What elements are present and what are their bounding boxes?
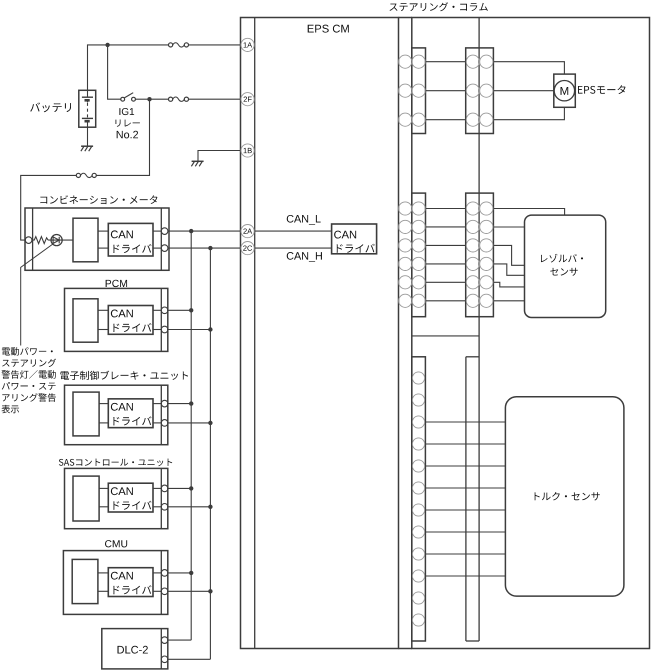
wire meter to pin 2C <box>168 247 241 249</box>
resistor warning lamp <box>32 237 48 244</box>
label meter CAN driver <box>111 230 133 238</box>
resolver row 6 terminals <box>399 294 412 307</box>
connector block motor left <box>412 48 426 134</box>
relay switch contact left <box>121 97 125 101</box>
torque terminal 6 <box>412 482 424 494</box>
wire fuse F2 to pin 2F <box>189 98 242 100</box>
pin 2C <box>241 242 254 255</box>
torque terminal 8 <box>412 526 424 538</box>
resolver row 4 terminals <box>399 257 412 270</box>
wire DLC-2 to CAN_L bus <box>168 639 191 641</box>
wire SAS control unit to CAN_L bus <box>168 487 191 489</box>
wire node A down to relay switch <box>108 45 121 99</box>
node SAS control unit CAN_L junction dot <box>189 486 193 490</box>
wire meter CAN driver to terminal H <box>153 247 161 249</box>
SAS control unit internal block <box>73 476 99 521</box>
label brake unit CAN driver <box>111 403 133 411</box>
wire fuse F3 to meter terminal <box>21 175 77 240</box>
wire SAS control unit CAN driver to terminal L <box>153 487 161 489</box>
resolver row 1 terminals <box>399 202 412 215</box>
pin 2F <box>241 93 254 106</box>
wire pin 2A to EPS CAN driver <box>255 230 332 232</box>
node brake unit CAN_L junction dot <box>189 401 193 405</box>
wire brake unit CAN driver to terminal H <box>153 422 161 424</box>
motor row 3 terminals <box>399 113 412 126</box>
wire SAS control unit block to CAN driver L <box>99 487 108 489</box>
CAN_L bus wire <box>190 231 192 640</box>
relay switch blade <box>124 93 133 98</box>
label EPS motor <box>578 85 626 94</box>
EPS CM box <box>241 18 399 649</box>
PCM box <box>65 288 168 351</box>
pin 1A <box>241 38 254 51</box>
wire PCM block to CAN driver H <box>98 329 108 331</box>
steering column inner vertical line <box>478 18 480 642</box>
torque terminal 5 <box>412 460 424 472</box>
label CAN_H <box>287 252 322 262</box>
wire node B to fuse F2 <box>150 98 169 100</box>
wire CMU to CAN_L bus <box>168 572 191 574</box>
wire CMU to CAN_H bus <box>168 590 211 592</box>
wire resolver signal 2 <box>493 226 524 228</box>
torque terminal 2 <box>412 394 424 406</box>
wire CMU block to CAN driver L <box>98 572 108 574</box>
wire resolver row 3 left <box>426 244 466 246</box>
resolver row 2 terminals <box>399 220 412 233</box>
terminal circle brake unit L <box>161 400 168 407</box>
wire lamp to meter internal block <box>48 239 73 241</box>
wire torque signal 2 <box>425 443 505 445</box>
label CMU <box>105 540 127 547</box>
node CMU CAN_L junction dot <box>189 571 193 575</box>
brake unit right strip line <box>160 385 162 445</box>
battery cells <box>82 96 93 98</box>
node CAN_H meter junction dot <box>208 246 212 250</box>
fuse F1 <box>169 43 173 47</box>
label battery <box>30 102 71 112</box>
torque terminal 3 <box>412 416 424 428</box>
pin 2A <box>241 225 254 238</box>
terminal circle brake unit H <box>161 420 168 427</box>
wire DLC-2 to CAN_H bus <box>168 658 211 660</box>
terminal circle DLC-2 H <box>161 656 168 663</box>
wire node A to fuse F1 <box>108 44 169 46</box>
node A junction dot <box>105 43 109 47</box>
torque connector strip <box>465 357 467 641</box>
torque terminal 10 <box>412 570 424 582</box>
node PCM CAN_L junction dot <box>189 308 193 312</box>
pin 1B <box>241 144 254 157</box>
label resolver sensor <box>541 254 583 263</box>
terminal circle meter left <box>25 237 32 244</box>
label DLC-2 <box>117 646 147 654</box>
wire column internal link <box>412 335 479 337</box>
combination meter right strip line <box>160 208 162 270</box>
motor row 1 terminals <box>399 55 412 68</box>
ground battery <box>81 145 93 147</box>
wire PCM to CAN_L bus <box>168 309 191 311</box>
label CMU CAN driver <box>111 572 133 580</box>
battery BATT box <box>79 90 96 127</box>
resolver row 5 terminals <box>399 276 412 289</box>
wire CMU CAN driver to terminal H <box>153 590 161 592</box>
label steering column <box>390 2 488 11</box>
relay switch contact right <box>132 97 136 101</box>
wire SAS control unit block to CAN driver H <box>99 506 108 508</box>
CMU CAN driver box <box>108 568 153 597</box>
wire brake unit block to CAN driver H <box>99 422 108 424</box>
connector block torque left <box>412 357 426 641</box>
terminal circle SAS control unit L <box>161 485 168 492</box>
CMU box <box>63 551 167 615</box>
EPS motor M1 symbol <box>554 81 574 101</box>
fuse F3 <box>76 173 80 177</box>
wire brake unit CAN driver to terminal L <box>153 403 161 405</box>
connector block resolver right <box>466 193 494 317</box>
ground 1B <box>192 160 204 162</box>
wire motor row 2 <box>426 90 466 92</box>
wire pin 2C to EPS CAN driver <box>255 247 332 249</box>
wire SAS control unit CAN driver to terminal H <box>153 506 161 508</box>
steering column box <box>412 18 650 649</box>
top border bridge <box>399 17 412 19</box>
wire torque signal 3 <box>425 465 505 467</box>
warning lamp LED <box>51 235 62 246</box>
label PCM CAN driver <box>111 310 133 318</box>
wire torque signal 8 <box>425 575 505 577</box>
terminal circle PCM H <box>161 326 168 333</box>
resolver row 3 terminals <box>399 239 412 252</box>
label brake unit <box>60 371 188 380</box>
wire relay to node B <box>135 98 149 100</box>
PCM internal block <box>73 299 98 342</box>
wire brake unit to CAN_H bus <box>168 422 211 424</box>
wire motor row 3 <box>426 119 466 121</box>
label SAS control unit <box>59 459 172 467</box>
wire torque signal 1 <box>425 421 505 423</box>
SAS control unit box <box>65 468 168 528</box>
wire PCM to CAN_H bus <box>168 329 211 331</box>
terminal circle CMU H <box>161 588 168 595</box>
motor row 2 terminals <box>399 84 412 97</box>
label PCM <box>106 280 127 287</box>
brake unit box <box>65 385 168 445</box>
wire brake unit block to CAN driver L <box>99 403 108 405</box>
torque terminal 9 <box>412 548 424 560</box>
wire torque signal 5 <box>425 509 505 511</box>
CMU right strip line <box>160 551 162 615</box>
wire fuse F1 to pin 1A <box>189 44 242 46</box>
wire resolver signal 3 <box>493 245 524 265</box>
wire meter to pin 2A <box>168 230 241 232</box>
wire CMU block to CAN driver H <box>98 590 108 592</box>
wire torque signal 6 <box>425 531 505 533</box>
SAS control unit right strip line <box>160 468 162 528</box>
label EPS CM <box>308 25 349 33</box>
label combination meter <box>40 195 157 204</box>
CMU internal block <box>72 559 98 603</box>
wire PCM CAN driver to terminal L <box>153 309 161 311</box>
connector block motor right <box>466 48 494 134</box>
node SAS control unit CAN_H junction dot <box>208 505 212 509</box>
wire pin 1B to ground <box>198 151 241 162</box>
wire resolver row 1 left <box>426 208 466 210</box>
EPS CM connector strip line <box>254 18 256 649</box>
wire meter block to CAN driver H <box>98 247 108 249</box>
wire resolver signal 5 <box>493 282 524 287</box>
label SAS control unit CAN driver <box>111 487 133 495</box>
resolver sensor box <box>525 215 606 317</box>
torque sensor box <box>505 397 624 596</box>
brake unit internal block <box>73 392 99 436</box>
terminal circle DLC-2 L <box>161 637 168 644</box>
PCM right strip line <box>160 288 162 351</box>
wire motor phase U <box>493 62 564 74</box>
wire resolver row 6 left <box>426 300 466 302</box>
PCM CAN driver box <box>108 306 153 335</box>
terminal circle meter CAN H <box>161 245 168 252</box>
wire PCM CAN driver to terminal H <box>153 329 161 331</box>
label CAN_L <box>287 215 321 225</box>
wire torque signal 7 <box>425 553 505 555</box>
wire meter block to CAN driver L <box>98 230 108 232</box>
terminal circle CMU L <box>161 570 168 577</box>
node CAN_L meter junction dot <box>189 229 193 233</box>
wire resolver signal 4 <box>493 264 524 275</box>
combination meter left strip line <box>32 208 34 270</box>
node CMU CAN_H junction dot <box>208 589 212 593</box>
label torque sensor <box>535 492 600 501</box>
node brake unit CAN_H junction dot <box>208 421 212 425</box>
brake unit CAN driver box <box>108 399 153 428</box>
wire torque signal 4 <box>425 487 505 489</box>
wire SAS control unit to CAN_H bus <box>168 506 211 508</box>
torque terminal 1 <box>412 372 424 384</box>
bottom border bridge <box>399 648 412 650</box>
wire resolver signal 1 <box>493 209 564 216</box>
fuse F2 <box>169 97 173 101</box>
wire resolver row 5 left <box>426 281 466 283</box>
wire PCM block to CAN driver L <box>98 309 108 311</box>
torque terminal 11 <box>412 592 424 604</box>
EPS CAN driver box <box>332 224 377 254</box>
leader line lamp to warning text <box>21 244 53 346</box>
DLC-2 right strip line <box>160 629 162 669</box>
wire node B down to fuse F3 <box>96 99 149 175</box>
label warning indicator text <box>2 347 53 355</box>
wire CMU CAN driver to terminal L <box>153 572 161 574</box>
SAS control unit CAN driver box <box>108 483 153 512</box>
terminal circle meter CAN L <box>161 228 168 235</box>
wire resolver signal 6 <box>493 300 524 302</box>
wire meter CAN driver to terminal L <box>153 230 161 232</box>
torque terminal 4 <box>412 438 424 450</box>
wire battery negative to ground <box>87 121 89 146</box>
node B junction dot <box>147 97 151 101</box>
combination meter box <box>25 208 169 270</box>
label IG1 relay No.2 <box>119 108 134 115</box>
connector block resolver left <box>412 193 426 317</box>
terminal circle PCM L <box>161 307 168 314</box>
torque terminal 7 <box>412 504 424 516</box>
terminal circle SAS control unit H <box>161 504 168 511</box>
wire resolver row 2 left <box>426 226 466 228</box>
wire brake unit to CAN_L bus <box>168 403 191 405</box>
wire motor phase W <box>493 107 564 119</box>
node PCM CAN_H junction dot <box>208 327 212 331</box>
CAN_H bus wire <box>209 248 211 659</box>
meter internal block <box>73 218 98 262</box>
wire battery positive to node A <box>88 45 108 97</box>
EPS motor M1 box <box>554 74 576 107</box>
wire motor phase V <box>493 90 553 92</box>
DLC-2 box <box>102 629 168 669</box>
meter CAN driver box <box>108 223 153 256</box>
wire motor row 1 <box>426 61 466 63</box>
label EPS CAN driver <box>334 231 356 239</box>
wire resolver row 4 left <box>426 263 466 265</box>
torque terminal 12 <box>412 614 424 626</box>
